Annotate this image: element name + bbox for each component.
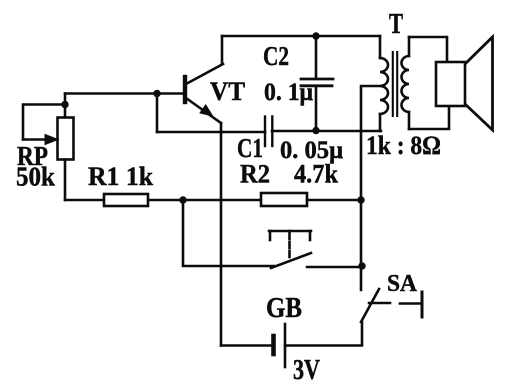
svg-text:50k: 50k: [16, 162, 55, 192]
wire battery right to switch: [285, 322, 362, 346]
transformer T core: [393, 52, 397, 116]
svg-text:T: T: [389, 8, 403, 40]
label GB 3V: [266, 293, 320, 386]
wire node to R2: [183, 199, 261, 202]
node R1 R2 junction: [179, 196, 186, 203]
resistor R2: [261, 193, 307, 206]
capacitor C1: [265, 117, 272, 147]
wire transformer tap: [361, 86, 380, 290]
battery GB: [221, 324, 285, 367]
potentiometer RP: [23, 94, 74, 201]
svg-text:R2: R2: [240, 160, 270, 189]
label R2 4.7k: [240, 160, 338, 189]
wire vibrator branch down: [182, 200, 185, 264]
wire vibrator right lead: [307, 266, 362, 269]
wire RP to R1: [65, 199, 104, 202]
wire base junction down to feedback rail: [156, 94, 159, 133]
label C2 0.1u: [263, 41, 313, 106]
wire vibrator left lead: [183, 265, 274, 268]
svg-text:SA: SA: [387, 271, 418, 297]
transformer T primary: [380, 36, 388, 131]
node C2 bottom: [312, 127, 319, 134]
wire R1 to node: [148, 199, 183, 202]
wire emitter down: [220, 123, 223, 346]
vibrator actuator T bar: [269, 231, 311, 257]
svg-text:C2: C2: [263, 41, 289, 71]
node R2 right junction: [357, 196, 364, 203]
svg-text:0. 1μ: 0. 1μ: [264, 79, 313, 106]
label T: [389, 8, 403, 40]
vibrator contact blade: [271, 253, 311, 268]
svg-text:GB: GB: [266, 293, 302, 324]
node base junction: [153, 90, 160, 97]
wire feedback rail right: [272, 130, 381, 133]
transformer T secondary: [402, 37, 409, 129]
node C2 top: [312, 32, 319, 39]
label SA: [387, 271, 418, 297]
speaker: [436, 37, 493, 130]
node vibrator right junction: [358, 262, 365, 269]
node RP wiper junction: [61, 101, 68, 108]
svg-text:3V: 3V: [293, 355, 320, 386]
svg-text:C1: C1: [237, 133, 263, 163]
wire R2 to tap line: [307, 199, 361, 202]
capacitor C2: [301, 36, 333, 131]
wire feedback rail left: [157, 131, 265, 134]
svg-text:VT: VT: [210, 77, 245, 106]
svg-text:1k : 8Ω: 1k : 8Ω: [366, 131, 441, 160]
switch SA: [361, 289, 422, 322]
svg-text:0. 05μ: 0. 05μ: [280, 137, 343, 164]
label R1 1k: [88, 162, 154, 191]
label VT: [210, 77, 245, 106]
wire secondary bottom to speaker: [409, 106, 449, 129]
label 1k : 8ohm: [366, 131, 441, 160]
transistor VT: [185, 36, 223, 123]
wire top rail collector to transformer: [222, 35, 380, 38]
label RP 50k: [16, 141, 55, 192]
wire secondary top to speaker: [409, 37, 447, 62]
label C1 0.05u: [237, 133, 343, 164]
svg-text:R1 1k: R1 1k: [88, 162, 154, 191]
wire base: [65, 92, 183, 95]
resistor R1: [104, 194, 148, 206]
